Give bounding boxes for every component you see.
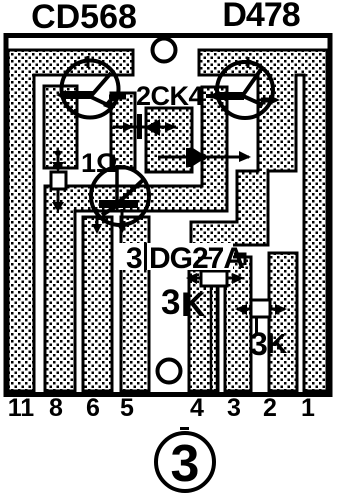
mounting hole top [153,39,176,62]
label 3DG27A background [119,243,233,270]
transistor V3 lead right [121,209,124,227]
svg-text:3: 3 [171,435,200,493]
bracket mark [234,254,245,265]
transistor V3 lead left [96,209,99,227]
copper region pin4 [189,270,218,391]
transistor V3 circle [91,167,149,225]
diode D1 2CK4 [113,114,177,139]
transistor V3 collector [118,180,143,203]
svg-text:6: 6 [86,394,100,422]
tick mark [180,427,189,430]
svg-text:2: 2 [263,394,277,422]
svg-text:K: K [181,286,206,324]
resistor 1R [51,150,66,212]
transistor V2 collector [243,68,262,95]
svg-text:DG27A: DG27A [149,242,244,275]
resistor Ra 3K [186,271,244,391]
svg-text:11: 11 [8,394,35,422]
copper region pin3 [225,257,251,391]
transistor V1 emitter [91,97,110,106]
copper region pin6 [83,217,112,391]
copper region top-right staircase pin1 [191,50,327,391]
copper region pin8 bar [45,87,227,391]
transistor V1 base bar [63,91,93,99]
transistor V3 lead from pad [115,167,119,202]
figure number 3 [156,433,214,491]
copper region pin2 [269,253,297,391]
svg-text:3: 3 [250,326,268,362]
diode D2 [158,148,251,167]
svg-text:K: K [267,328,287,359]
svg-text:1: 1 [301,394,315,422]
svg-text:CD568: CD568 [31,0,137,36]
svg-text:3: 3 [227,394,241,422]
resistor Rb 3K [235,300,287,334]
svg-text:3: 3 [161,283,180,322]
copper pad block G center [146,108,192,172]
svg-text:4: 4 [190,394,204,422]
transistor V1 collector [91,73,111,96]
svg-text:5: 5 [120,394,134,422]
transistor V3 emitter [102,205,118,215]
board outline [6,36,330,395]
copper pad block F [111,93,135,168]
cross stroke of 7 [198,257,212,260]
copper region pin11 top-left [8,50,133,391]
copper region pin5 [121,217,149,391]
svg-text:1Ω: 1Ω [81,148,118,178]
transistor V2 emitter [243,96,263,105]
svg-text:3: 3 [126,242,143,275]
transistor V3 base bar [99,200,138,208]
mounting hole bottom [158,360,181,383]
pin 5 trace edge through label row [144,243,147,270]
copper pad block E [44,86,77,168]
transistor V2 base bar [218,92,244,100]
transistor V2 circle [217,62,273,118]
svg-text:2CK4: 2CK4 [136,81,204,111]
transistor V1 circle [62,61,119,118]
svg-text:D478: D478 [222,0,299,34]
svg-text:8: 8 [49,394,63,422]
